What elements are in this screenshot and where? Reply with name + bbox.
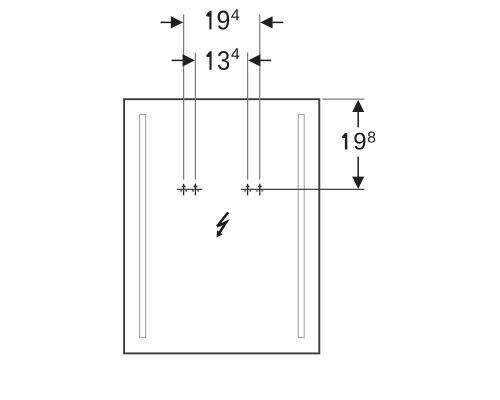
dim 13-4 left arrow — [183, 54, 195, 66]
fixing point symbol 1 — [180, 184, 187, 196]
dim 13-4 label — [206, 51, 229, 70]
dim 13-4 right tail line — [259, 59, 272, 61]
dim 19-8 label — [342, 133, 365, 150]
mirror body — [124, 99, 319, 353]
extension line right outer (dim 19-4) — [259, 15, 261, 180]
right light strip — [298, 114, 304, 337]
vertical dim 19-8 upper arrow — [352, 100, 364, 112]
dim 19-4 label — [206, 11, 229, 30]
fixing points base line left pair — [177, 188, 202, 190]
dim 19-8 label superscript — [368, 131, 376, 142]
dim 19-4 right tail line — [271, 21, 283, 23]
vertical dim 19-8 lower arrow — [352, 177, 364, 189]
dim 19-4 label superscript — [231, 9, 239, 20]
fixing points base line right pair with leader to dimension — [241, 188, 364, 190]
dim 13-4 left tail line — [172, 59, 185, 61]
extension line right inner (dim 13-4) — [247, 53, 249, 180]
dim 13-4 right arrow — [248, 54, 260, 66]
vertical dim 19-8 lower line segment — [357, 157, 359, 179]
lightning bolt (electrical connection symbol) — [217, 212, 229, 237]
fixing point symbol 3 — [244, 184, 251, 196]
dim 19-4 right arrow — [260, 16, 272, 28]
dim 19-4 left arrow — [171, 16, 183, 28]
dim 19-4 left tail line — [161, 21, 173, 23]
dim 13-4 label superscript — [231, 48, 239, 59]
fixing point symbol 2 — [192, 184, 199, 196]
vertical dim 19-8 upper line segment — [357, 111, 359, 128]
extension line left outer (dim 19-4) — [183, 15, 185, 180]
fixing point symbol 4 — [256, 184, 263, 196]
left light strip — [140, 114, 146, 337]
top extension line of vertical dim 19-8 — [323, 98, 365, 100]
extension line left inner (dim 13-4) — [194, 53, 196, 180]
